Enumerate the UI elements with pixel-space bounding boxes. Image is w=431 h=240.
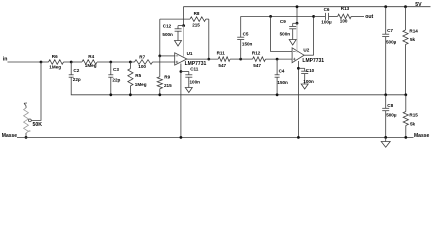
net label in [3, 57, 8, 63]
wire U2 Vplus riser [296, 23, 298, 52]
node U1 output junction [207, 58, 210, 61]
wire U2 Vminus drop [297, 61, 299, 137]
node U1 supply [182, 24, 185, 27]
node C7 bottom [384, 93, 387, 96]
node R5 bottom [129, 93, 132, 96]
svg-text:100: 100 [340, 19, 348, 24]
svg-text:C10: C10 [306, 68, 315, 73]
wire U1 minus input [160, 55, 175, 57]
node pot bottom [25, 136, 28, 139]
node C6 branch [312, 15, 315, 18]
svg-text:out: out [365, 14, 373, 20]
wire U2 feedback riser [313, 16, 315, 55]
svg-text:5V: 5V [415, 2, 422, 8]
svg-text:Masse: Masse [414, 133, 430, 139]
wire U1 supply drop [182, 7, 184, 26]
svg-text:1Meg: 1Meg [49, 64, 61, 69]
svg-text:22p: 22p [112, 78, 120, 83]
node 5V U2 [296, 5, 299, 8]
svg-text:C4: C4 [279, 69, 285, 74]
node C4 top [276, 58, 279, 61]
svg-text:150n: 150n [277, 80, 288, 85]
svg-text:100µ: 100µ [321, 19, 332, 24]
net label 5V [415, 2, 422, 8]
node U1 Vminus junction [180, 70, 183, 73]
net label Masse right [414, 133, 430, 139]
svg-text:C3: C3 [113, 67, 119, 72]
capacitor C6 [314, 7, 338, 24]
svg-text:R13: R13 [341, 6, 350, 11]
resistor R6 [41, 54, 71, 70]
node C4 bottom [276, 93, 279, 96]
svg-text:in: in [3, 57, 8, 63]
node C2 top [70, 61, 73, 64]
node R9 bottom [158, 93, 161, 96]
svg-text:100: 100 [138, 64, 146, 69]
node U2 supply [296, 22, 299, 25]
wire U2 supply drop [296, 7, 298, 24]
wire U1 Vminus drop [180, 64, 182, 138]
svg-text:R11: R11 [217, 50, 226, 55]
resistor R8 [160, 11, 209, 27]
svg-text:R6: R6 [52, 54, 58, 59]
capacitor C7 [382, 7, 396, 95]
svg-text:C6: C6 [324, 7, 330, 12]
wire to pot wiper [31, 62, 41, 120]
svg-text:547: 547 [218, 63, 226, 68]
wire U2 output [304, 54, 314, 56]
svg-text:R15: R15 [409, 112, 418, 117]
node C3 top [109, 61, 112, 64]
svg-text:50K: 50K [33, 122, 43, 128]
svg-text:R14: R14 [409, 28, 418, 33]
potentiometer P1 [24, 103, 32, 137]
svg-text:R8: R8 [194, 11, 200, 16]
capacitor C12 [162, 23, 183, 46]
svg-text:R4: R4 [88, 54, 94, 59]
svg-text:500n: 500n [162, 32, 173, 37]
resistor R14 [403, 7, 418, 95]
node U2 feedback tap [269, 15, 272, 18]
net label out [365, 14, 373, 20]
wire U1 feedback right riser [208, 19, 210, 59]
svg-text:100n: 100n [303, 79, 314, 84]
wire reference rail [71, 77, 406, 95]
wire U2 feedback top [241, 15, 314, 17]
svg-text:500n: 500n [280, 31, 291, 36]
wire Masse rail [17, 136, 414, 138]
svg-text:U2: U2 [303, 47, 309, 52]
ground [381, 137, 390, 147]
svg-text:100n: 100n [190, 80, 201, 85]
svg-text:R5: R5 [135, 73, 141, 78]
resistor R5 [128, 62, 147, 95]
svg-text:215: 215 [192, 22, 200, 27]
wire C3-R5 [111, 61, 131, 63]
resistor R15 [403, 95, 418, 138]
net label Masse left [2, 133, 18, 139]
wire U1 Vplus riser [183, 26, 185, 57]
resistor R4 [71, 54, 111, 68]
svg-text:22p: 22p [73, 77, 81, 82]
resistor R13 [338, 6, 364, 23]
op-amp U2 [292, 47, 324, 64]
capacitor C9 [280, 19, 297, 45]
svg-text:C5: C5 [243, 32, 249, 37]
node C5 bottom [239, 58, 242, 61]
svg-text:C9: C9 [280, 19, 286, 24]
svg-text:5k: 5k [410, 37, 416, 42]
node C8 Masse [384, 136, 387, 139]
svg-text:1Meg: 1Meg [135, 82, 147, 87]
svg-text:R9: R9 [164, 75, 170, 80]
node U1 minus input [158, 55, 161, 58]
node U2 Vminus Masse [297, 136, 300, 139]
node R14 bottom [404, 93, 407, 96]
wire in [8, 61, 42, 63]
capacitor C5 [237, 16, 252, 59]
label 50K [33, 122, 43, 128]
wire 5V rail [183, 6, 430, 8]
svg-text:C8: C8 [387, 103, 393, 108]
node R5 top [129, 61, 132, 64]
wire U1 output [187, 58, 218, 60]
node U1 Vminus Masse [180, 136, 183, 139]
svg-text:U1: U1 [187, 51, 193, 56]
wire U2 minus riser [271, 16, 293, 51]
capacitor C4 [275, 59, 288, 95]
wire U1 feedback left riser [159, 19, 161, 56]
svg-text:5k: 5k [410, 122, 416, 127]
svg-text:R12: R12 [252, 50, 261, 55]
capacitor C11 [181, 67, 200, 93]
node 5V C7 [384, 5, 387, 8]
svg-text:LMP7731: LMP7731 [302, 58, 324, 64]
svg-text:Masse: Masse [2, 133, 18, 139]
svg-text:215: 215 [164, 83, 172, 88]
capacitor C3 [108, 62, 120, 95]
svg-text:500µ: 500µ [386, 113, 397, 118]
op-amp U1 [175, 51, 207, 67]
resistor R11 [217, 50, 241, 68]
node U2 Vminus junction [297, 67, 300, 70]
node in-junction [40, 61, 43, 64]
resistor R12 [241, 50, 292, 68]
svg-text:R7: R7 [139, 54, 145, 59]
svg-text:C2: C2 [73, 68, 79, 73]
capacitor C8 [382, 95, 397, 138]
node R15 bottom [404, 136, 407, 139]
svg-text:547: 547 [253, 63, 261, 68]
node C3 bottom [109, 93, 112, 96]
svg-text:500µ: 500µ [386, 39, 397, 44]
capacitor C2 [69, 62, 81, 82]
svg-text:150n: 150n [242, 42, 253, 47]
svg-text:1Meg: 1Meg [85, 63, 97, 68]
svg-text:C12: C12 [163, 23, 172, 28]
resistor R9 [157, 56, 172, 95]
svg-text:C7: C7 [387, 28, 393, 33]
svg-text:C11: C11 [190, 67, 199, 72]
node 5V R14 [404, 5, 407, 8]
capacitor C10 [298, 68, 314, 89]
resistor R7 [130, 54, 174, 69]
